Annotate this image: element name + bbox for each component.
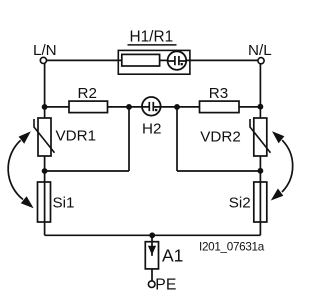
node left middle: [42, 104, 48, 110]
terminal PE: [148, 281, 155, 288]
svg-text:VDR2: VDR2: [200, 129, 241, 146]
wire top-right: H1 to N/L: [186, 59, 258, 61]
svg-text:PE: PE: [155, 277, 176, 294]
wire R1 to H1: [160, 59, 168, 61]
fuse Si1: [38, 182, 51, 222]
fuse Si2: [254, 182, 267, 222]
outer box H1/R1 device: [118, 50, 190, 74]
node bottom center: [149, 232, 155, 238]
wire middle-left node to R2: [45, 106, 69, 108]
svg-text:R3: R3: [209, 85, 228, 102]
wire lower-left horizontal: [45, 170, 129, 172]
wire VDR2 to lower-right node: [259, 156, 261, 182]
lamp H1 (glow lamp): [168, 51, 187, 70]
svg-text:Si1: Si1: [53, 194, 75, 211]
node lower right: [258, 168, 264, 174]
wire right vertical upper: [259, 64, 261, 118]
wire H2-right vertical: [176, 107, 178, 171]
svg-text:H1/R1: H1/R1: [130, 28, 174, 45]
node H2 right: [174, 104, 180, 110]
resistor R2: [69, 101, 108, 113]
svg-text:VDR1: VDR1: [56, 127, 97, 144]
wire H2-left vertical: [128, 107, 130, 171]
svg-text:L/N: L/N: [33, 42, 57, 59]
svg-text:R2: R2: [78, 85, 97, 102]
resistor R1: [122, 54, 160, 66]
wire VDR1 to lower-left node: [44, 156, 46, 182]
svg-text:I201_07631a: I201_07631a: [199, 240, 265, 253]
svg-text:A1: A1: [162, 246, 183, 266]
resistor R3: [200, 101, 240, 113]
lamp H2 (glow lamp): [142, 97, 161, 116]
wire Si1 to bottom: [44, 222, 46, 235]
wire top-left: L/N to R1: [47, 59, 122, 61]
wire H2 to R3: [161, 106, 200, 108]
varistor VDR1: [34, 118, 55, 156]
swap arrow arc left: [8, 131, 33, 208]
wire R2 to H2: [108, 106, 143, 108]
svg-text:H2: H2: [142, 121, 161, 138]
wire lower-right horizontal: [177, 170, 260, 172]
varistor VDR2: [250, 118, 271, 156]
terminal N/L: [258, 58, 264, 64]
wire A1 to PE: [151, 269, 153, 281]
node H2 left: [126, 104, 132, 110]
svg-text:Si2: Si2: [229, 194, 251, 211]
terminal L/N: [40, 57, 46, 63]
underline H1/R1: [128, 44, 177, 46]
node right middle: [258, 104, 264, 110]
wire Si2 to bottom: [259, 222, 261, 235]
node lower left: [42, 168, 48, 174]
swap arrow arc right: [271, 131, 293, 200]
surge arrester A1: [145, 235, 158, 269]
wire left vertical upper: [44, 63, 46, 118]
wire bottom horizontal: [45, 234, 261, 236]
wire R3 to right node: [239, 106, 260, 108]
svg-text:N/L: N/L: [248, 42, 272, 59]
